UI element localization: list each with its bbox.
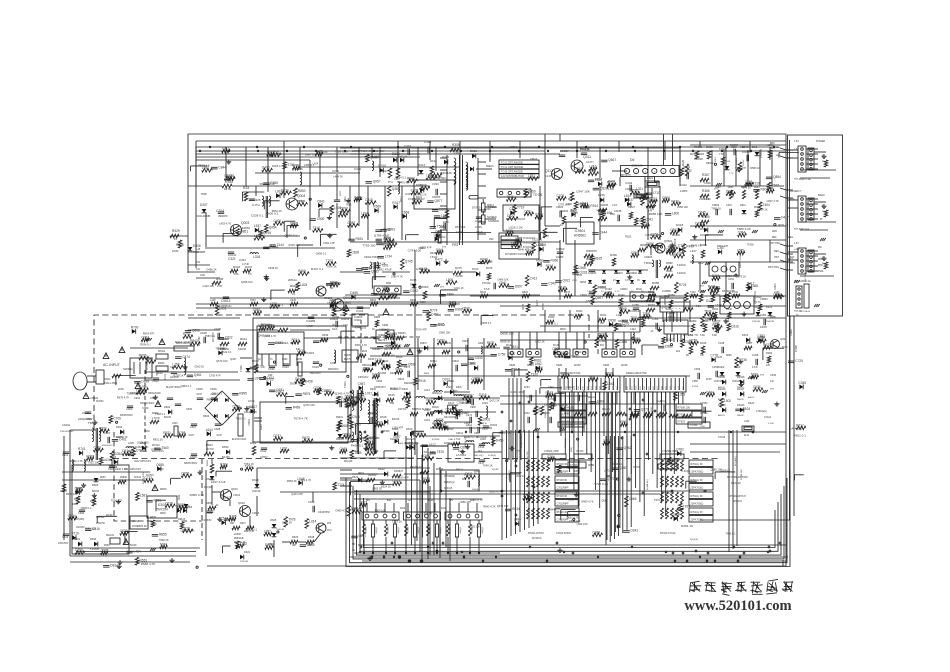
svg-text:Q444 47P: Q444 47P <box>291 492 303 496</box>
svg-text:C9637: C9637 <box>462 341 469 343</box>
svg-text:C668: C668 <box>402 210 410 214</box>
svg-text:C886 47P: C886 47P <box>460 500 472 504</box>
svg-text:R9632UF: R9632UF <box>234 538 244 540</box>
svg-text:R943: R943 <box>190 339 198 343</box>
svg-text:T789: T789 <box>354 451 361 455</box>
svg-text:D729: D729 <box>183 526 191 530</box>
svg-text:3.5/1W: 3.5/1W <box>430 257 438 259</box>
svg-text:22PK700(1): 22PK700(1) <box>691 502 704 505</box>
svg-text:Q456 0.1: Q456 0.1 <box>316 252 327 256</box>
svg-text:9: 9 <box>673 307 675 309</box>
svg-text:C777: C777 <box>678 244 686 248</box>
svg-text:D903 4.7K: D903 4.7K <box>489 489 502 493</box>
svg-text:L944: L944 <box>202 166 209 170</box>
svg-text:D814: D814 <box>110 564 118 568</box>
svg-text:9C610: 9C610 <box>134 476 142 479</box>
svg-text:C733: C733 <box>144 476 152 480</box>
svg-text:C783: C783 <box>292 164 300 168</box>
svg-text:T310: T310 <box>313 226 320 230</box>
svg-text:PRN: PRN <box>790 263 795 265</box>
svg-text:L824: L824 <box>300 283 307 287</box>
svg-text:D839: D839 <box>141 379 149 383</box>
svg-text:L355 47P: L355 47P <box>392 426 403 430</box>
svg-text:1N414B: 1N414B <box>752 321 760 323</box>
svg-text:IN(U)08: IN(U)08 <box>204 487 213 489</box>
svg-text:D968 2K: D968 2K <box>662 491 672 495</box>
svg-text:R584 1K: R584 1K <box>750 166 760 170</box>
svg-text:Q877: Q877 <box>435 199 443 203</box>
svg-text:D620: D620 <box>402 388 409 391</box>
svg-text:D426 4.7K: D426 4.7K <box>272 164 285 168</box>
svg-text:(R)5R: (R)5R <box>588 465 594 467</box>
svg-text:C778: C778 <box>710 354 718 358</box>
svg-text:D662: D662 <box>726 189 734 193</box>
svg-text:C827 4.7K: C827 4.7K <box>767 199 780 203</box>
svg-text:T728 2.2K: T728 2.2K <box>334 150 349 154</box>
svg-text:L644: L644 <box>206 428 213 432</box>
svg-text:R445: R445 <box>466 396 474 400</box>
svg-text:CR/2W: CR/2W <box>238 348 247 351</box>
svg-text:C706: C706 <box>113 417 121 421</box>
svg-text:1.2V: 1.2V <box>587 291 592 293</box>
svg-text:R968: R968 <box>706 145 713 149</box>
svg-text:R818: R818 <box>558 285 566 289</box>
svg-text:C550: C550 <box>330 299 337 302</box>
svg-text:F98.: F98. <box>230 523 235 525</box>
svg-text:R9630L27: R9630L27 <box>410 466 422 469</box>
svg-text:REG: REG <box>774 250 779 253</box>
svg-text:2200UF/630V: 2200UF/630V <box>60 431 74 433</box>
svg-text:C818 1K: C818 1K <box>268 266 278 270</box>
svg-text:C9524: C9524 <box>446 428 454 431</box>
svg-text:L832 1K: L832 1K <box>535 340 545 344</box>
svg-text:C9618: C9618 <box>452 361 459 363</box>
svg-text:T678 1K: T678 1K <box>741 185 751 189</box>
svg-text:C436: C436 <box>620 340 628 344</box>
svg-text:L609: L609 <box>296 357 302 361</box>
svg-text:C506: C506 <box>462 307 470 311</box>
svg-text:C544: C544 <box>221 517 229 521</box>
svg-text:L758: L758 <box>172 363 179 367</box>
svg-text:2V: 2V <box>613 279 616 282</box>
svg-text:R985 10K: R985 10K <box>649 212 664 216</box>
svg-text:40607: 40607 <box>72 504 79 506</box>
svg-text:Q657 4.7K: Q657 4.7K <box>566 515 579 519</box>
svg-text:C606: C606 <box>186 408 193 411</box>
svg-text:12K: 12K <box>292 545 297 547</box>
svg-text:T521: T521 <box>511 345 518 349</box>
svg-text:D572 10K: D572 10K <box>151 447 163 451</box>
svg-text:L842 1K: L842 1K <box>516 474 526 478</box>
svg-text:Q777: Q777 <box>607 477 615 481</box>
svg-text:C844: C844 <box>218 165 226 169</box>
svg-text:L603: L603 <box>172 422 178 425</box>
svg-text:Q765: Q765 <box>181 471 189 475</box>
svg-text:D912: D912 <box>740 204 746 207</box>
svg-text:TO B CRT ANODE: TO B CRT ANODE <box>501 170 523 174</box>
svg-text:9SXL3: 9SXL3 <box>743 159 745 166</box>
svg-text:T578 2K: T578 2K <box>261 323 271 327</box>
svg-text:C968: C968 <box>619 307 627 311</box>
svg-text:L672: L672 <box>604 469 610 473</box>
svg-text:R724: R724 <box>679 283 687 287</box>
svg-text:0.1UF: 0.1UF <box>768 423 775 425</box>
svg-text:C633: C633 <box>312 365 319 369</box>
svg-text:R392: R392 <box>731 146 737 149</box>
svg-text:R383: R383 <box>698 290 705 293</box>
svg-text:R736: R736 <box>739 358 747 362</box>
svg-text:R601: R601 <box>158 361 165 365</box>
svg-text:REG: REG <box>788 236 793 239</box>
svg-text:L931: L931 <box>275 190 282 194</box>
svg-text:C440 2K: C440 2K <box>282 520 292 524</box>
svg-text:DYNAMIC FOCUS: DYNAMIC FOCUS <box>505 252 527 256</box>
svg-text:Q437: Q437 <box>230 357 237 361</box>
svg-text:R383: R383 <box>690 319 697 323</box>
svg-text:R349: R349 <box>480 257 488 261</box>
svg-text:Q350: Q350 <box>619 466 627 470</box>
svg-text:R328: R328 <box>86 454 94 458</box>
svg-text:D527 2K: D527 2K <box>731 481 741 485</box>
svg-text:R615: R615 <box>405 396 411 399</box>
svg-text:Q524: Q524 <box>68 514 76 518</box>
svg-text:D498: D498 <box>305 379 313 383</box>
svg-text:R930 0.1: R930 0.1 <box>612 462 623 466</box>
svg-text:BE179: BE179 <box>344 359 352 361</box>
svg-text:Q004: Q004 <box>297 194 305 198</box>
svg-text:R571 2K: R571 2K <box>778 223 788 227</box>
svg-text:9TC346: 9TC346 <box>482 282 491 285</box>
svg-text:Q495 100: Q495 100 <box>258 334 270 338</box>
svg-text:D602: D602 <box>74 538 81 541</box>
svg-text:1(B)(L)T: 1(B)(L)T <box>460 526 462 534</box>
svg-text:D606: D606 <box>92 483 99 487</box>
svg-text:L327: L327 <box>690 249 697 253</box>
svg-text:T774: T774 <box>337 483 344 487</box>
svg-text:1(B)(L)T: 1(B)(L)T <box>376 526 378 534</box>
svg-text:9OF: 9OF <box>790 199 795 201</box>
svg-text:L505: L505 <box>446 278 453 282</box>
svg-text:0.1TH: 0.1TH <box>252 203 260 207</box>
svg-text:R651: R651 <box>154 498 162 502</box>
svg-text:R424: R424 <box>708 284 716 288</box>
svg-text:D319: D319 <box>598 193 605 197</box>
svg-text:L619: L619 <box>424 418 430 422</box>
svg-text:.22: .22 <box>650 330 654 333</box>
svg-text:L767: L767 <box>365 392 372 396</box>
svg-text:R647: R647 <box>426 398 434 402</box>
svg-text:D495: D495 <box>350 291 358 295</box>
svg-text:9G0: 9G0 <box>627 385 629 390</box>
svg-text:D818 1K: D818 1K <box>500 340 510 344</box>
svg-text:C305: C305 <box>411 188 419 192</box>
svg-text:Q588: Q588 <box>370 156 378 160</box>
svg-text:L617: L617 <box>429 443 436 447</box>
svg-text:Q782: Q782 <box>676 448 684 452</box>
svg-text:C1477: C1477 <box>586 160 594 164</box>
svg-text:T626: T626 <box>751 373 758 377</box>
svg-text:C845 2.2K: C845 2.2K <box>645 233 661 237</box>
svg-text:R344: R344 <box>233 265 241 269</box>
svg-text:6800/630V: 6800/630V <box>102 445 113 447</box>
svg-text:D(M)L3: D(M)L3 <box>736 157 738 165</box>
svg-text:R9619: R9619 <box>336 417 343 419</box>
svg-text:C371: C371 <box>571 354 579 358</box>
svg-text:1(B)(L)T: 1(B)(L)T <box>398 526 400 534</box>
svg-text:2.1K: 2.1K <box>612 203 618 207</box>
svg-text:D982: D982 <box>348 221 356 225</box>
svg-text:D931: D931 <box>276 388 284 392</box>
svg-text:R374: R374 <box>292 338 300 342</box>
svg-text:2200UF: 2200UF <box>566 387 574 389</box>
svg-text:R982: R982 <box>666 261 673 265</box>
svg-text:C321: C321 <box>228 257 236 261</box>
svg-text:C360: C360 <box>597 400 605 404</box>
svg-text:R9608: R9608 <box>120 477 127 479</box>
svg-text:Q513: Q513 <box>392 479 400 483</box>
svg-text:L485: L485 <box>254 234 261 238</box>
svg-text:T904 10K: T904 10K <box>375 509 387 513</box>
svg-text:D470 47P: D470 47P <box>399 180 411 184</box>
svg-text:C488: C488 <box>592 530 600 534</box>
svg-text:3V: 3V <box>637 279 640 282</box>
svg-text:POWER: POWER <box>816 140 825 143</box>
svg-text:1K9608: 1K9608 <box>694 158 703 161</box>
svg-text:7.5K: 7.5K <box>740 147 745 149</box>
svg-text:R615: R615 <box>398 378 405 381</box>
svg-text:L614: L614 <box>424 388 430 392</box>
svg-text:R329: R329 <box>172 229 180 233</box>
svg-text:L800: L800 <box>672 212 679 216</box>
svg-text:9D60: 9D60 <box>100 477 106 479</box>
svg-text:C701(R)PF: C701(R)PF <box>557 486 570 489</box>
svg-text:R347: R347 <box>666 338 674 342</box>
svg-text:R(5)62: R(5)62 <box>602 414 610 416</box>
svg-text:D12: D12 <box>698 261 704 265</box>
svg-text:RT018 3K: RT018 3K <box>557 495 568 498</box>
svg-text:Q800: Q800 <box>662 196 670 200</box>
svg-text:R395: R395 <box>229 515 237 519</box>
svg-text:T428: T428 <box>375 358 382 362</box>
svg-text:D316: D316 <box>479 393 487 397</box>
svg-text:R343: R343 <box>548 315 555 319</box>
svg-text:R826 0.1: R826 0.1 <box>434 323 445 327</box>
svg-text:L870: L870 <box>151 522 157 526</box>
svg-text:D316: D316 <box>731 324 739 328</box>
svg-text:R447 0.1: R447 0.1 <box>311 267 324 271</box>
svg-text:C951: C951 <box>253 308 261 312</box>
svg-text:BL254Y900A: BL254Y900A <box>166 386 181 389</box>
svg-text:C673: C673 <box>297 349 305 353</box>
svg-text:T388: T388 <box>751 284 758 288</box>
svg-text:L612: L612 <box>424 408 430 412</box>
svg-text:Q360 10K: Q360 10K <box>440 171 452 175</box>
svg-text:9R1: 9R1 <box>462 479 467 481</box>
svg-text:D466 2K: D466 2K <box>207 268 217 272</box>
svg-text:D314: D314 <box>561 372 569 376</box>
svg-text:R980: R980 <box>652 281 660 285</box>
svg-text:D601: D601 <box>158 349 166 353</box>
svg-text:C991 47P: C991 47P <box>323 241 335 245</box>
svg-text:R994: R994 <box>766 351 773 355</box>
svg-text:D725 10K: D725 10K <box>469 524 481 528</box>
svg-text:C828: C828 <box>351 250 359 254</box>
svg-text:L444 2K: L444 2K <box>333 174 343 178</box>
svg-text:Q844 47P: Q844 47P <box>548 508 560 512</box>
svg-text:C334: C334 <box>432 182 439 186</box>
svg-text:D323: D323 <box>742 334 749 337</box>
svg-text:C539: C539 <box>120 529 128 533</box>
svg-text:R9607: R9607 <box>628 206 636 209</box>
svg-text:C863: C863 <box>670 228 678 232</box>
svg-text:C7016: C7016 <box>718 436 726 439</box>
svg-text:C432 100: C432 100 <box>434 176 446 180</box>
svg-text:Q601: Q601 <box>231 487 238 491</box>
svg-text:Q327: Q327 <box>359 500 367 504</box>
svg-text:C624: C624 <box>743 407 751 411</box>
svg-text:R705: R705 <box>257 365 265 369</box>
svg-text:C608: C608 <box>214 427 221 431</box>
svg-text:DMB: DMB <box>770 316 776 319</box>
svg-text:100/25V: 100/25V <box>76 527 85 529</box>
svg-text:RC9698R96X: RC9698R96X <box>690 154 705 156</box>
svg-text:D313: D313 <box>472 267 479 271</box>
svg-text:D988: D988 <box>646 242 654 246</box>
svg-text:C1813: C1813 <box>233 494 241 497</box>
svg-text:T863: T863 <box>250 299 256 302</box>
svg-text:IC902: IC902 <box>132 519 139 523</box>
svg-text:D9(L)B: D9(L)B <box>408 526 410 533</box>
svg-text:C540 1K: C540 1K <box>544 403 554 407</box>
svg-text:D624 2K: D624 2K <box>381 484 391 488</box>
svg-text:Q370: Q370 <box>641 408 649 412</box>
svg-text:C128: C128 <box>718 341 725 345</box>
svg-text:22(F): 22(F) <box>572 280 577 282</box>
svg-text:T554 47P: T554 47P <box>111 499 123 503</box>
svg-text:C346B: C346B <box>306 319 315 323</box>
svg-text:L316: L316 <box>589 165 596 169</box>
svg-text:R346: R346 <box>700 341 707 345</box>
svg-text:R683: R683 <box>410 282 417 286</box>
svg-text:9L9: 9L9 <box>478 450 483 453</box>
svg-text:R615: R615 <box>388 393 395 397</box>
svg-text:11C7: 11C7 <box>340 190 342 196</box>
svg-text:9B60: 9B60 <box>424 373 430 375</box>
svg-text:T817: T817 <box>382 363 389 367</box>
svg-text:R700: R700 <box>131 325 139 329</box>
svg-text:L547: L547 <box>255 377 262 381</box>
svg-text:1uF: 1uF <box>770 381 775 383</box>
svg-text:L823: L823 <box>629 318 636 322</box>
svg-text:C968: C968 <box>578 266 586 270</box>
svg-text:IZO1: IZO1 <box>178 494 181 500</box>
svg-text:T9601: T9601 <box>644 261 652 265</box>
svg-text:5.1K/RW: 5.1K/RW <box>90 549 100 551</box>
svg-text:960P/2KV: 960P/2KV <box>328 368 339 371</box>
svg-text:9RW0: 9RW0 <box>160 488 167 491</box>
svg-text:R701: R701 <box>183 332 191 336</box>
svg-text:R603: R603 <box>203 414 210 418</box>
svg-text:TH1: TH1 <box>388 181 393 184</box>
svg-text:T802 2K: T802 2K <box>159 538 169 542</box>
svg-text:9G3: 9G3 <box>640 385 642 390</box>
svg-text:L657: L657 <box>394 435 401 439</box>
svg-text:R302 0.1: R302 0.1 <box>218 337 229 341</box>
svg-text:47RF/50: 47RF/50 <box>96 523 106 525</box>
svg-text:R623: R623 <box>302 436 310 440</box>
svg-text:T563 47P: T563 47P <box>717 244 729 248</box>
svg-text:AM012: AM012 <box>718 414 726 417</box>
svg-text:Q854: Q854 <box>773 175 781 179</box>
svg-text:D868: D868 <box>648 291 655 294</box>
svg-text:C9601: C9601 <box>620 287 628 291</box>
svg-text:Q672 2K: Q672 2K <box>489 399 500 403</box>
svg-text:9(L)R2: 9(L)R2 <box>492 469 499 471</box>
svg-text:Q573 100: Q573 100 <box>216 359 228 363</box>
svg-text:aC668: aC668 <box>234 534 241 536</box>
svg-text:C678: C678 <box>165 501 173 505</box>
svg-text:D(R)9(L)2: D(R)9(L)2 <box>444 481 455 484</box>
svg-text:D90: D90 <box>386 281 392 285</box>
svg-text:R922: R922 <box>625 234 632 238</box>
svg-text:R33700K: R33700K <box>455 226 466 229</box>
svg-text:R341: R341 <box>600 313 607 317</box>
svg-text:R629: R629 <box>292 535 299 539</box>
svg-text:C9682: C9682 <box>630 273 637 275</box>
svg-text:1N9632: 1N9632 <box>700 234 709 237</box>
svg-text:D524 100: D524 100 <box>137 440 149 444</box>
svg-text:C540: C540 <box>499 281 507 285</box>
svg-text:C427: C427 <box>509 207 517 211</box>
svg-text:D464: D464 <box>372 372 380 376</box>
svg-text:C515: C515 <box>772 183 780 187</box>
svg-text:BE179 1: BE179 1 <box>378 339 388 342</box>
svg-text:R03637: R03637 <box>394 469 404 473</box>
svg-text:D709: D709 <box>672 458 680 462</box>
svg-text:1.5V: 1.5V <box>794 141 799 143</box>
svg-text:Q957: Q957 <box>373 180 381 184</box>
svg-text:C883: C883 <box>757 334 765 338</box>
svg-text:99BCP:YOG: 99BCP:YOG <box>740 255 742 268</box>
svg-text:T946: T946 <box>506 195 513 199</box>
svg-text:D782: D782 <box>437 338 445 342</box>
svg-text:C697 100: C697 100 <box>510 390 524 394</box>
svg-text:Q962: Q962 <box>624 446 632 450</box>
svg-text:L623: L623 <box>482 401 488 405</box>
svg-text:D622: D622 <box>352 475 359 479</box>
svg-text:T341: T341 <box>222 147 229 151</box>
svg-text:C562 1K: C562 1K <box>194 364 204 368</box>
svg-text:C547: C547 <box>446 408 454 412</box>
svg-text:R9LF21: R9LF21 <box>106 535 115 537</box>
svg-text:R03632: R03632 <box>368 474 377 477</box>
svg-text:R325: R325 <box>430 252 437 255</box>
svg-text:Q882: Q882 <box>603 439 611 443</box>
svg-text:T528 0.1: T528 0.1 <box>155 412 166 416</box>
svg-text:C972: C972 <box>404 366 411 369</box>
svg-text:VER: VER <box>556 363 563 367</box>
svg-text:9R98: 9R98 <box>726 355 732 357</box>
svg-text:D969: D969 <box>455 307 463 311</box>
svg-text:T678 4.7K: T678 4.7K <box>294 417 309 421</box>
svg-text:Q601: Q601 <box>524 209 532 213</box>
svg-text:R878: R878 <box>436 418 444 422</box>
svg-text:D551 1K: D551 1K <box>469 435 479 439</box>
svg-text:2.4K: 2.4K <box>217 284 223 288</box>
svg-text:5.6K: 5.6K <box>700 334 705 337</box>
svg-text:T974: T974 <box>160 542 167 546</box>
svg-text:C334: C334 <box>356 309 364 313</box>
